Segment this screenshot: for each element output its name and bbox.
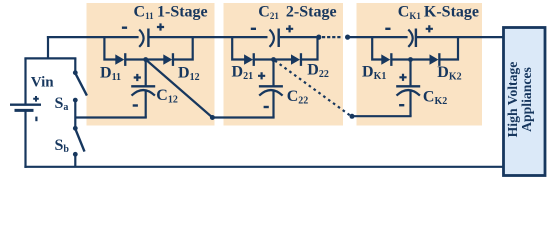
wire stage 2 left vertical	[232, 36, 244, 60]
wire battery top vertical	[24, 58, 26, 103]
capacitor CK2 bottom lead	[409, 91, 411, 117]
wire stage K diode row between DK1 and node	[392, 58, 411, 60]
node stage 1 diagonal foot	[210, 115, 215, 120]
battery plus sign	[33, 96, 39, 102]
wire switch branch vertical to Sa	[74, 58, 76, 73]
capacitor C22 plus sign	[258, 72, 265, 79]
capacitor C12 curved plate	[132, 90, 155, 96]
wire stage 1 diagonal from mid node to stage 2 bottom	[146, 60, 213, 118]
capacitor C11 minus sign	[122, 27, 127, 29]
capacitor C22 straight plate	[259, 85, 283, 87]
node stage 2 mid junction	[271, 57, 276, 62]
capacitor CK2 plus sign	[399, 74, 406, 81]
wire top rail segment from C11 to C21	[150, 36, 268, 38]
switch Sa contact node bottom	[73, 98, 78, 103]
switch Sb contact node top	[73, 126, 78, 131]
capacitor C21 curved plate	[270, 30, 274, 47]
wire stage 1 diode row between node and D12	[146, 58, 164, 60]
wire bottom rail	[24, 166, 503, 168]
capacitor CK1 plus sign	[426, 25, 433, 32]
stage 2 highlight box	[224, 3, 344, 126]
capacitor CK1 minus sign	[385, 28, 390, 30]
capacitor C22 minus sign	[264, 106, 269, 108]
capacitor C21 straight plate	[278, 29, 280, 48]
battery minus tick	[35, 117, 37, 122]
svg-text:Vin: Vin	[31, 75, 54, 91]
wire stage 1 right vertical from D12 to top rail	[174, 36, 193, 60]
wire stage K bottom horizontal	[352, 115, 412, 117]
wire stage 1 bottom horizontal from switch node to C12	[75, 116, 147, 118]
wire stage K left vertical	[372, 36, 382, 60]
wire battery bottom vertical	[24, 111, 26, 168]
capacitor C11 straight plate	[147, 29, 149, 48]
wire from Sb bottom contact to bottom rail	[74, 154, 76, 167]
diode D11	[115, 53, 126, 66]
capacitor C21 plus sign	[286, 25, 293, 32]
capacitor C11 curved plate	[139, 30, 143, 47]
node top rail after dashed break	[345, 35, 350, 40]
svg-text:High Voltage: High Voltage	[505, 62, 520, 138]
load box High Voltage Appliances	[504, 28, 546, 176]
capacitor C22 curved plate	[259, 90, 282, 96]
svg-text:Appliances: Appliances	[519, 67, 534, 132]
switch Sa contact node top	[73, 70, 78, 75]
capacitor C11 plus sign	[157, 23, 164, 30]
wire stage 1 left vertical	[104, 36, 115, 60]
capacitor C21 minus sign	[251, 28, 256, 30]
switch Sa blade	[75, 73, 87, 95]
battery Vin bottom plate	[15, 109, 34, 112]
capacitor CK2 top lead	[409, 60, 411, 87]
capacitor C12 minus sign	[133, 104, 138, 106]
capacitor CK2 curved plate	[397, 90, 420, 96]
wire top rail segment from node after dashed break to CK1	[348, 36, 408, 38]
svg-text:Sb: Sb	[55, 137, 70, 155]
node top rail before dashed break	[316, 35, 321, 40]
wire riser from source loop to top rail	[47, 36, 49, 60]
wire top rail segment from source riser to C11	[47, 36, 139, 38]
switch Sb blade	[75, 129, 84, 152]
wire dashed continuation of top rail	[322, 36, 342, 38]
wire stage K diode row between node and DK2	[411, 58, 431, 60]
svg-text:Sa: Sa	[55, 95, 69, 113]
node stage K mid junction	[408, 57, 413, 62]
capacitor C12 straight plate	[131, 85, 155, 87]
wire stage 2 right vertical from D22 to top rail	[302, 36, 318, 60]
switch Sb contact node bottom	[73, 152, 78, 157]
capacitor C22 top lead	[272, 60, 274, 87]
wire stage K right vertical from DK2 to top rail	[440, 36, 458, 60]
capacitor CK2 straight plate	[396, 85, 420, 87]
stage 1 highlight box	[87, 3, 215, 126]
wire top rail segment from C21 to node before dashed break	[280, 36, 319, 38]
wire source top horizontal	[24, 57, 76, 59]
node stage 1 mid junction	[143, 57, 148, 62]
diode DK2	[430, 53, 441, 66]
wire stage 1 diode row between D11 and node	[126, 58, 146, 60]
battery Vin top plate	[10, 104, 41, 106]
diode D21	[244, 53, 255, 66]
wire stage 2 diode row between node and D22	[274, 58, 292, 60]
capacitor CK1 straight plate	[415, 29, 417, 48]
diode D22	[291, 53, 302, 66]
capacitor CK1 curved plate	[408, 30, 412, 47]
capacitor C12 bottom lead	[145, 91, 147, 118]
wire dashed diagonal from stage 2 mid node to stage K bottom	[275, 61, 351, 117]
diode D12	[163, 53, 174, 66]
stage K highlight box	[357, 3, 483, 126]
wire between Sa bottom contact and Sb top contact	[74, 100, 76, 128]
capacitor CK2 minus sign	[399, 104, 404, 106]
capacitor C22 bottom lead	[272, 91, 274, 118]
wire stage 2 diode row between D21 and node	[255, 58, 274, 60]
capacitor C12 plus sign	[134, 74, 141, 81]
node stage 2 dashed diagonal foot	[350, 114, 355, 119]
wire top rail segment from CK1 to load box	[417, 36, 503, 38]
capacitor C12 top lead	[145, 60, 147, 87]
svg-text:C111-Stage: C111-Stage	[134, 3, 208, 21]
wire stage 2 bottom horizontal	[212, 116, 274, 118]
diode DK1	[381, 53, 392, 66]
